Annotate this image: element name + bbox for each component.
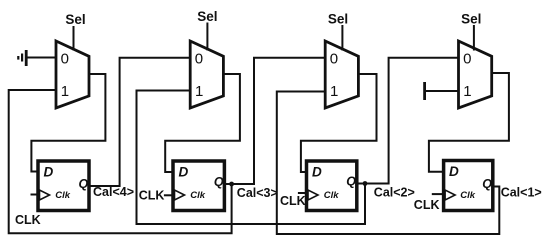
wire Sel4 <box>473 25 475 51</box>
dff FF3 <box>307 161 357 211</box>
svg-text:Cal<4>: Cal<4> <box>93 185 134 199</box>
node junction Q2 <box>229 182 234 187</box>
wire bar to mux U4 in1 <box>426 90 459 92</box>
dff FF1 <box>38 161 89 211</box>
svg-text:Q: Q <box>346 175 356 189</box>
svg-text:Q: Q <box>79 177 89 191</box>
wire Sel3 <box>341 25 343 51</box>
svg-text:Sel: Sel <box>461 12 481 27</box>
svg-text:Sel: Sel <box>197 9 217 24</box>
svg-text:1: 1 <box>195 83 203 100</box>
ground <box>17 50 27 66</box>
mux U1 <box>56 41 89 108</box>
svg-text:1: 1 <box>330 83 338 100</box>
svg-text:1: 1 <box>463 83 471 100</box>
mux U2 <box>190 41 223 108</box>
wire gnd to mux U1 in0 <box>27 57 57 59</box>
svg-text:D: D <box>44 165 54 180</box>
wire U4 out to FF4 D <box>429 73 509 172</box>
wire U3 out to FF3 D <box>301 74 377 172</box>
svg-text:Clk: Clk <box>55 190 71 201</box>
svg-text:Clk: Clk <box>190 190 206 201</box>
dff FF4 <box>444 161 493 211</box>
wire FF3 Q to mux U4 in0 <box>357 58 459 184</box>
svg-text:Clk: Clk <box>460 190 476 201</box>
dff FF2 <box>173 161 224 211</box>
svg-text:Sel: Sel <box>328 12 348 27</box>
svg-text:Sel: Sel <box>65 12 85 27</box>
svg-text:0: 0 <box>463 51 471 68</box>
wire net Cal<2> feedback rail A to mux U2 in1 <box>137 91 366 225</box>
svg-text:1: 1 <box>61 83 69 100</box>
wire FF1 Q to mux U2 in0 <box>89 58 191 186</box>
wire net Cal<3> feedback rail B to mux U1 in1 <box>9 90 232 233</box>
svg-text:Cal<1>: Cal<1> <box>501 186 542 200</box>
svg-text:0: 0 <box>330 51 338 68</box>
svg-text:CLK: CLK <box>139 189 165 203</box>
svg-text:D: D <box>449 164 459 179</box>
wire U1 out to FF1 D <box>31 74 105 172</box>
wire CLK stub FF3 <box>298 192 307 194</box>
svg-text:Q: Q <box>214 175 224 189</box>
wire Sel1 <box>73 26 75 51</box>
node junction Q3 <box>363 181 368 186</box>
wire U2 out to FF2 D <box>165 74 240 172</box>
svg-text:Cal<2>: Cal<2> <box>374 186 415 200</box>
terminal bar (U4 in1) <box>423 82 426 100</box>
wire CLK stub FF4 <box>432 193 444 195</box>
svg-text:0: 0 <box>195 51 203 68</box>
svg-text:CLK: CLK <box>15 213 41 227</box>
svg-text:Clk: Clk <box>324 190 340 201</box>
svg-text:CLK: CLK <box>280 194 306 208</box>
wire CLK stub FF1 <box>31 194 39 196</box>
svg-text:D: D <box>312 165 322 180</box>
svg-text:0: 0 <box>61 51 69 68</box>
wire FF2 Q to mux U3 in0 <box>224 58 325 184</box>
wire CLK stub FF2 <box>164 194 173 196</box>
svg-text:CLK: CLK <box>414 198 440 212</box>
wire Sel2 <box>206 23 208 51</box>
svg-text:D: D <box>179 165 189 180</box>
mux U3 <box>325 41 358 108</box>
wire net Cal<1> feedback rail C to mux U3 in1 <box>277 92 500 235</box>
mux U4 <box>459 41 492 108</box>
svg-text:Q: Q <box>482 177 492 191</box>
svg-text:Cal<3>: Cal<3> <box>237 186 278 200</box>
